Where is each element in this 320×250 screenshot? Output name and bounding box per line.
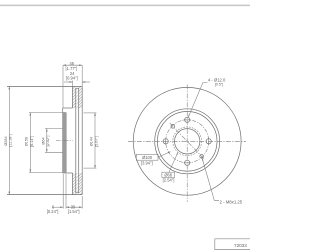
right view: bolt circle PCD dash-dot	[166, 120, 209, 163]
left view: hat step bottom	[63, 172, 73, 174]
bolt hole top cross ticks	[184, 119, 191, 121]
svg-text:45: 45	[70, 61, 75, 66]
arrowheads Ø64	[46, 129, 48, 132]
dimension Ø64 vertical line	[46, 129, 48, 153]
left view: disc right face	[81, 86, 83, 194]
bolt hole left	[163, 139, 168, 144]
svg-text:[5.67"]: [5.67"]	[94, 136, 98, 147]
dimension Ø156 bottom extension	[29, 172, 63, 174]
dimension Ø144 bottom extension	[84, 167, 97, 169]
dimension 6 extension line B	[65, 174, 67, 209]
bolt hole bottom cross ticks	[184, 162, 191, 164]
dimension Ø156 vertical line	[29, 113, 31, 173]
bolt hole left cross ticks	[165, 138, 167, 145]
dimension Ø64 top extension	[45, 128, 63, 130]
right view: diagonal centerline through M8 holes	[170, 123, 205, 160]
arrowheads Ø284	[9, 86, 11, 89]
right view: vertical centerline	[186, 85, 188, 203]
svg-text:[2.52"]: [2.52"]	[46, 136, 50, 147]
svg-text:2 - M8x1.25: 2 - M8x1.25	[220, 199, 243, 204]
leader from Ø100 box to bolt circle	[158, 152, 171, 158]
left view: hatched right disc plate upper	[79, 86, 83, 108]
left view: hatched left disc plate upper	[73, 86, 76, 108]
arrowheads Ø144	[94, 113, 96, 116]
bolt hole top	[185, 117, 190, 122]
dimension 24 dim line right segment	[82, 81, 90, 83]
svg-text:[2.54"]: [2.54"]	[163, 178, 175, 183]
svg-text:[1.54"]: [1.54"]	[68, 209, 80, 214]
dimension 24 left extension	[72, 81, 74, 87]
arrowheads 6 and 39	[60, 206, 63, 208]
svg-text:[0.5"]: [0.5"]	[215, 83, 223, 87]
boxed label Ø100	[136, 154, 158, 160]
right view: dashed circle Ø68	[173, 127, 202, 156]
arrowheads 45	[63, 64, 66, 66]
right view: outer circle Ø284	[133, 87, 241, 195]
svg-text:Ø64: Ø64	[41, 137, 45, 144]
left view: disc top edge with Ø284 extension line	[7, 85, 82, 87]
arrowhead leader Ø100	[168, 152, 171, 154]
left view: disc bottom edge with Ø284 extension line	[7, 194, 82, 196]
svg-text:72033: 72033	[234, 243, 247, 248]
left view: hat mounting face left edge	[62, 108, 64, 173]
top page border line	[0, 4, 250, 6]
M8 hole lower-right	[200, 155, 204, 159]
svg-text:[6.14"]: [6.14"]	[30, 136, 34, 147]
left view: vent gap left wall	[75, 88, 77, 193]
title block box	[215, 239, 250, 250]
svg-text:Ø156: Ø156	[25, 137, 29, 146]
left view: vent gap right wall	[78, 88, 80, 193]
dimension Ø64 bottom extension	[45, 151, 63, 153]
dimension 6 extension line A	[62, 174, 64, 209]
leader from Ø68 box to bore	[169, 152, 178, 172]
dimension 6 dim line	[53, 206, 64, 208]
svg-text:Ø284: Ø284	[4, 136, 8, 145]
dimension Ø156 top extension	[29, 112, 66, 114]
left view: hatched hat mounting plate	[63, 113, 66, 173]
left view: horizontal centerline	[56, 140, 73, 142]
svg-text:[11.18"]: [11.18"]	[9, 134, 13, 147]
dimension Ø144 top extension	[84, 112, 97, 114]
left view: disc left face lower	[72, 173, 74, 195]
arrowheads 24	[70, 81, 73, 83]
right view: center bore circle Ø64	[175, 129, 200, 154]
dimension Ø144 vertical line	[94, 113, 96, 168]
arrowheads Ø156	[30, 113, 32, 116]
right view: horizontal centerline	[128, 140, 246, 142]
dimension 45 horizontal line	[63, 64, 82, 66]
arrowhead leader Ø68	[176, 152, 178, 155]
svg-text:[0.24"]: [0.24"]	[47, 209, 59, 214]
left view: vent gap bottom cap	[76, 192, 79, 194]
left view: hatched right disc plate lower	[79, 173, 83, 195]
left view: hat step top	[63, 107, 73, 109]
dimension 39 dim line	[66, 206, 82, 208]
M8 hole upper-left	[171, 125, 175, 129]
dimension 39 right extension	[81, 196, 83, 209]
arrowhead leader 2-M8x1.25	[202, 158, 203, 161]
right view: braking surface inner circle	[155, 109, 220, 174]
bolt hole right	[206, 139, 211, 144]
left view: hat mounting plate right edge	[65, 113, 67, 173]
leader for 2-M8x1.25 annotation	[202, 158, 219, 200]
right view: hat outer circle Ø156	[157, 112, 217, 172]
left view: vent gap light hatch upper	[76, 88, 79, 108]
boxed label Ø68	[162, 172, 175, 177]
left view: hatched left disc plate lower	[73, 173, 76, 195]
dimension 45 right extension down to disc	[81, 65, 83, 86]
left view: vent gap top cap	[76, 87, 79, 89]
arrowhead leader 4-Ø12.0	[188, 115, 190, 118]
bolt hole right cross ticks	[208, 138, 210, 145]
svg-text:[3.94"]: [3.94"]	[141, 160, 153, 165]
dimension Ø284 vertical line	[8, 86, 10, 194]
svg-text:[0.94"]: [0.94"]	[66, 76, 78, 81]
left view: disc left face upper	[72, 86, 74, 108]
leader for 4-Ø12.0 annotation	[188, 83, 207, 118]
svg-text:Ø144: Ø144	[89, 137, 93, 146]
left view: vent gap light hatch lower	[76, 173, 79, 193]
dimension 45 left extension down to hat	[62, 65, 64, 108]
dimension 24 dim line left segment	[64, 81, 73, 83]
bolt hole bottom	[185, 160, 190, 165]
